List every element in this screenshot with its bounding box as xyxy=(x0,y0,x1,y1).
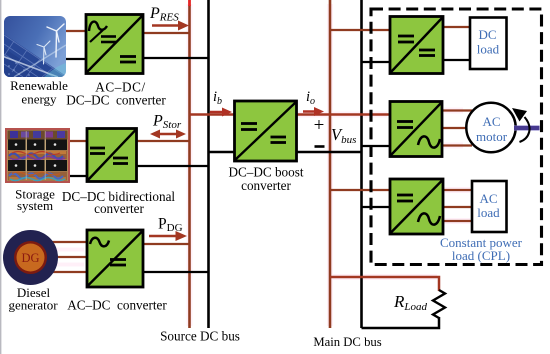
wiring clutter row2 xyxy=(8,172,67,181)
label DC-DC bidirectional converter xyxy=(62,189,176,216)
svg-text:converter: converter xyxy=(94,201,144,216)
U6 DC symbol xyxy=(397,120,413,123)
svg-text:load: load xyxy=(477,205,500,220)
U7 DC symbol xyxy=(397,194,413,197)
red tick at top of source bus xyxy=(188,0,191,6)
converter U3 AC-DC box xyxy=(87,230,143,287)
R_Load label xyxy=(393,292,428,313)
wire converter6 to AC load phase a xyxy=(443,189,472,191)
label AC-DC/DC-DC converter xyxy=(66,80,166,108)
U2 DC symbol right xyxy=(113,157,128,160)
P_Stor double arrow xyxy=(150,130,186,139)
wire main bus to converter4 red xyxy=(330,29,390,31)
wire converter5 to AC motor phase b xyxy=(442,127,466,129)
dashed CPL box xyxy=(371,9,542,265)
svg-text:DC: DC xyxy=(478,27,496,42)
converter U6 (AC motor) box xyxy=(390,102,442,157)
wire boost converter to main bus red xyxy=(296,113,330,116)
label DC-DC boost converter xyxy=(228,165,303,194)
i_o arrow xyxy=(303,107,324,116)
left page edge xyxy=(0,0,2,354)
P_RES arrow xyxy=(152,21,189,31)
column separators xyxy=(25,131,27,180)
glare streaks xyxy=(2,56,58,77)
source DC bus black line xyxy=(207,0,210,328)
svg-text:load (CPL): load (CPL) xyxy=(452,248,510,263)
svg-text:DG: DG xyxy=(21,251,39,265)
DC load box xyxy=(470,18,507,70)
wire converter3 to source bus red xyxy=(143,243,190,245)
wire converter3 to source bus black xyxy=(143,271,209,273)
AC motor circle xyxy=(466,103,515,152)
svg-text:AC: AC xyxy=(479,191,497,206)
label Source DC bus xyxy=(160,329,240,344)
source DC bus red line xyxy=(188,5,191,328)
wire converter5 to AC motor phase c xyxy=(442,144,472,146)
wire storage to converter (bottom) xyxy=(66,175,87,177)
label Main DC bus xyxy=(313,335,381,349)
converter U4 DC-DC boost box xyxy=(235,101,297,161)
motor rotation arrow xyxy=(512,108,530,142)
label AC-DC converter xyxy=(67,298,167,313)
svg-text:converter: converter xyxy=(241,178,291,193)
resistor R_Load zigzag xyxy=(433,290,445,318)
svg-text:load: load xyxy=(477,42,500,57)
converter U5 (DC load) box xyxy=(390,17,443,74)
wire converter2 to source bus black xyxy=(136,165,209,167)
svg-text:DC–DC converter: DC–DC converter xyxy=(66,93,166,108)
battery cells row1 xyxy=(8,140,67,151)
label Constant power load (CPL) xyxy=(440,235,523,263)
wire converter4 to DC load red xyxy=(443,26,470,28)
svg-text:Source DC bus: Source DC bus xyxy=(160,329,240,344)
diesel generator DG xyxy=(3,230,58,285)
wire renewable to converter (top) xyxy=(66,30,86,32)
label Renewable energy xyxy=(10,78,68,107)
wire boost converter to main bus black xyxy=(296,151,362,154)
main DC bus red line xyxy=(329,0,332,328)
converter U2 DC-DC bidirectional box xyxy=(87,129,137,182)
wire main bus to converter4 black xyxy=(362,61,391,63)
svg-text:system: system xyxy=(17,198,53,213)
i_o label xyxy=(306,89,315,107)
label Diesel generator xyxy=(8,285,58,313)
svg-text:motor: motor xyxy=(476,129,508,144)
svg-text:generator: generator xyxy=(8,298,58,313)
motor shaft xyxy=(514,125,540,131)
main DC bus black line xyxy=(360,0,363,328)
wire R_Load to main bus black xyxy=(362,317,440,328)
wire main bus to R_Load red xyxy=(330,277,439,291)
wire converter1 to source bus red xyxy=(143,32,190,34)
wind turbine 1 xyxy=(47,24,64,57)
U2 DC symbol left xyxy=(90,147,105,150)
pink jpeg halos xyxy=(48,4,470,326)
wire renewable to converter (bottom) xyxy=(66,58,86,60)
wire DG to converter phase b xyxy=(57,256,87,258)
battery cells row2 xyxy=(8,160,67,171)
svg-text:Main DC bus: Main DC bus xyxy=(313,335,381,349)
U1 AC wave symbol xyxy=(89,22,107,31)
wire converter2 to source bus red xyxy=(136,140,190,142)
AC load box xyxy=(472,181,507,232)
svg-text:energy: energy xyxy=(21,92,57,107)
wire converter6 to AC load phase c xyxy=(443,220,472,222)
U3 DC symbol xyxy=(110,258,126,261)
U7 AC symbol xyxy=(418,213,440,224)
P_RES label xyxy=(149,5,179,24)
U5 DC symbol right xyxy=(419,49,435,52)
svg-text:+: + xyxy=(314,115,325,136)
wiring clutter row1 xyxy=(8,151,67,160)
wire DG to converter phase c xyxy=(51,271,87,273)
i_b arrow xyxy=(210,108,232,117)
V_bus label xyxy=(331,125,356,146)
wire main bus to converter6 red xyxy=(330,189,390,191)
wire converter6 to AC load phase b xyxy=(443,206,472,208)
converter U1 AC-DC/DC-DC box xyxy=(86,15,143,74)
U1 DC symbol xyxy=(120,55,136,58)
P_Stor label xyxy=(152,113,182,132)
P_DG arrow xyxy=(149,231,187,241)
U4 DC symbol right xyxy=(271,136,287,139)
wind turbine 2 xyxy=(37,41,50,64)
wire source bus to boost converter red xyxy=(190,113,236,116)
svg-text:AC: AC xyxy=(482,114,500,129)
wire main bus to CPL converter A red xyxy=(330,113,390,116)
U5 DC symbol left xyxy=(398,35,414,38)
i_b label xyxy=(213,89,222,107)
wire main bus to converter6 black xyxy=(362,206,391,208)
plus sign xyxy=(314,115,325,136)
wire converter5 to AC motor phase a xyxy=(442,109,472,111)
label Storage system xyxy=(15,187,55,214)
wire converter1 to source bus black xyxy=(143,57,209,59)
converter U7 (AC load) box xyxy=(390,179,443,234)
svg-text:AC–DC converter: AC–DC converter xyxy=(67,298,167,313)
wire main bus to converter5 black xyxy=(362,145,391,147)
wire source bus to boost converter black xyxy=(209,151,236,154)
wire storage to converter (top) xyxy=(66,140,87,142)
wire converter4 to DC load black xyxy=(443,59,470,61)
storage system photo xyxy=(6,129,69,182)
renewable energy photo xyxy=(0,16,66,77)
P_DG label xyxy=(158,216,183,235)
U3 AC wave symbol xyxy=(90,238,109,247)
U6 AC symbol xyxy=(418,136,440,147)
U4 DC symbol left xyxy=(241,122,257,125)
minus sign xyxy=(315,145,325,148)
wire DG to converter phase a xyxy=(51,241,87,243)
